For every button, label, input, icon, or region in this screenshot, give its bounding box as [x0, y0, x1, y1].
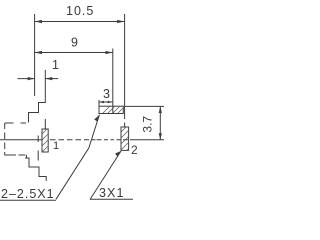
svg-text:3.7: 3.7 [140, 116, 154, 133]
svg-text:9: 9 [71, 36, 78, 50]
dimension 3.7 bottom extension [135, 139, 164, 141]
hidden dash near terminal 1 (upper) [37, 136, 39, 143]
hatch terminal 1 [37, 123, 53, 169]
leader for 3X1 [90, 151, 121, 200]
arrow 9 left [35, 51, 42, 54]
terminal 3 rectangle [99, 106, 123, 113]
dimension 1 line right tail [45, 78, 58, 80]
hidden dash top [5, 122, 26, 124]
hidden dash near terminal 1 (lower) [37, 151, 39, 161]
hidden dash bottom [5, 155, 27, 159]
arrow 3 right [108, 101, 113, 104]
svg-text:2–2.5X1: 2–2.5X1 [1, 187, 55, 201]
svg-text:2: 2 [131, 143, 138, 157]
dimension 3 line [99, 101, 113, 103]
arrow 1 right (outside pointing left) [45, 77, 52, 80]
arrow leader A [94, 115, 99, 122]
svg-text:1: 1 [53, 140, 59, 152]
hatch terminal 2 [116, 120, 133, 161]
pin stub above terminal 1 [44, 119, 46, 129]
arrow 3.7 top [159, 106, 162, 113]
svg-text:3: 3 [103, 87, 110, 101]
svg-text:1: 1 [52, 58, 59, 72]
dimension 3.7 top extension [125, 105, 164, 107]
hatch terminal 3 [98, 104, 132, 118]
arrow leader B [115, 151, 121, 156]
dimension 3.7 line [159, 106, 161, 139]
terminal 2 rectangle [121, 127, 129, 150]
arrow 3 left [99, 101, 104, 104]
hidden dash left [4, 123, 6, 156]
dimension 9 line [35, 52, 113, 54]
arrow 1 left (outside pointing right) [28, 77, 35, 80]
lower step profile [25, 158, 46, 181]
upper step profile [29, 70, 46, 123]
svg-text:3X1: 3X1 [99, 186, 125, 200]
arrow 9 right [105, 51, 112, 54]
extension line left [34, 14, 36, 96]
arrow 10.5 right [117, 20, 124, 23]
centerline [0, 139, 135, 141]
leader for 2-2.5X1 [56, 115, 99, 200]
dimension 3 left extension tick [98, 100, 100, 106]
svg-text:10.5: 10.5 [66, 4, 94, 18]
extension line mid (9 dim right / body edge) [112, 49, 114, 114]
extension line right [124, 14, 126, 127]
arrow 3.7 bottom [159, 133, 162, 140]
dimension 1 line left tail [18, 78, 35, 80]
underline 2-2.5X1 [0, 199, 56, 201]
underline 3X1 [90, 198, 133, 200]
arrow 10.5 left [35, 20, 42, 23]
terminal 1 rectangle [42, 129, 48, 152]
dimension 10.5 line [35, 21, 125, 23]
